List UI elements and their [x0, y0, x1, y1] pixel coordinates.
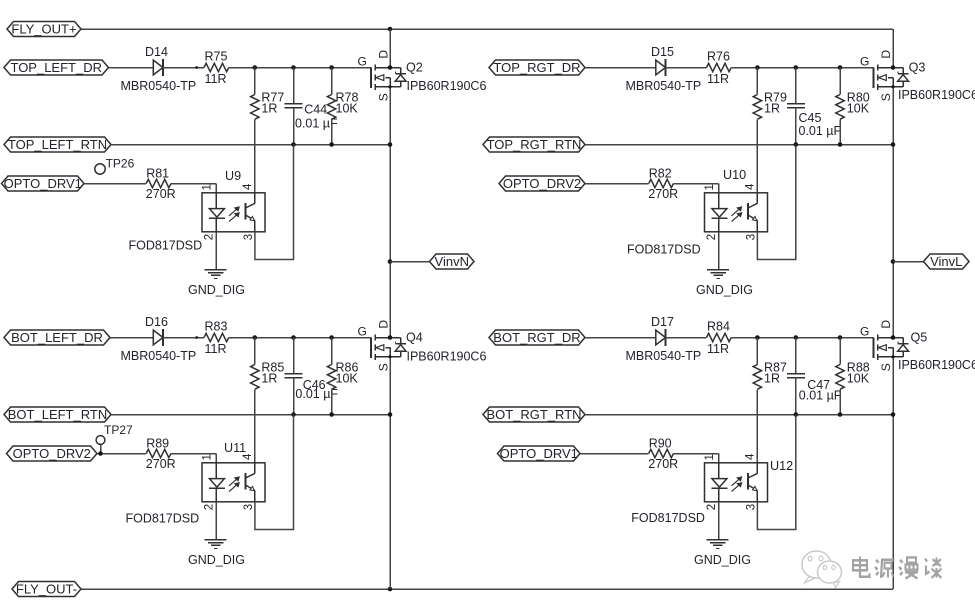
junction gate node / R77 [253, 65, 258, 70]
svg-text:3: 3 [243, 234, 255, 240]
svg-text:D: D [377, 320, 391, 329]
svg-text:S: S [879, 363, 893, 371]
svg-text:U9: U9 [225, 169, 241, 183]
node TOP_LEFT_RTN flag [4, 137, 111, 152]
svg-text:S: S [377, 363, 391, 371]
svg-text:IPB60R190C6: IPB60R190C6 [407, 350, 487, 364]
resistor R90 270R [649, 449, 674, 457]
wire opto U12 pin 2 to ground [718, 502, 720, 540]
capacitor C46 0.01uF [293, 338, 295, 374]
svg-text:GND_DIG: GND_DIG [694, 553, 751, 567]
svg-text:OPTO_DRV2: OPTO_DRV2 [503, 176, 581, 191]
junction node VinvL [891, 259, 896, 264]
diode D15 MBR0540-TP [656, 60, 666, 75]
svg-text:G: G [358, 55, 367, 69]
junction gate node / C45 [794, 65, 799, 70]
wire left mid rail upper [389, 29, 391, 68]
test point TP26 [95, 164, 105, 174]
junction gate node / C46 [291, 335, 296, 340]
svg-text:OPTO_DRV2: OPTO_DRV2 [13, 446, 91, 461]
transistor Q5 IPB60R190C6 [873, 338, 875, 359]
node FLY_OUT+ flag [7, 22, 81, 37]
svg-text:BOT_RGT_DR: BOT_RGT_DR [493, 330, 580, 345]
diode D16 MBR0540-TP [153, 330, 163, 345]
svg-text:BOT_RGT_RTN: BOT_RGT_RTN [486, 407, 581, 422]
svg-text:2: 2 [204, 234, 216, 240]
wire BOT_LEFT_RTN net [111, 414, 390, 416]
resistor R82 270R [649, 179, 674, 187]
svg-text:U12: U12 [770, 459, 793, 473]
svg-text:TP26: TP26 [106, 157, 135, 171]
svg-text:IPB60R190C6: IPB60R190C6 [898, 358, 975, 372]
node OPTO_DRV1 flag [2, 176, 85, 191]
svg-text:IPB60R190C6: IPB60R190C6 [898, 88, 975, 102]
transistor Q2 IPB60R190C6 [370, 68, 372, 89]
svg-text:U10: U10 [723, 168, 746, 182]
wire D14 to R75 [163, 67, 204, 69]
svg-text:3: 3 [746, 504, 758, 510]
capacitor C47 0.01uF [795, 338, 797, 374]
svg-text:11R: 11R [205, 342, 227, 356]
ground GND_DIG (U9) [205, 269, 227, 271]
resistor R88 10K [839, 338, 841, 365]
svg-text:270R: 270R [648, 457, 678, 471]
wire R90 to opto pin 1 [674, 453, 719, 455]
svg-text:BOT_LEFT_RTN: BOT_LEFT_RTN [8, 407, 107, 422]
resistor R85 1R [254, 338, 256, 365]
junction BOT_RGT_RTN / source rail [891, 412, 896, 417]
opto-coupler U12 FOD817DSD [705, 463, 768, 502]
svg-text:2: 2 [706, 234, 718, 240]
svg-text:1R: 1R [261, 102, 277, 116]
svg-text:R89: R89 [146, 437, 169, 451]
resistor R79 1R [756, 68, 758, 95]
transistor Q4 IPB60R190C6 [370, 338, 372, 359]
svg-text:11R: 11R [205, 72, 227, 86]
svg-text:U11: U11 [224, 441, 246, 455]
node VinvL flag [924, 254, 970, 269]
junction top rail / Q2 drain column [388, 27, 393, 32]
svg-text:FOD817DSD: FOD817DSD [129, 239, 203, 253]
svg-text:C45: C45 [799, 111, 822, 125]
resistor R81 270R [146, 179, 171, 187]
wire right rail middle [892, 87, 894, 338]
svg-text:D: D [879, 50, 893, 59]
svg-text:TOP_RGT_DR: TOP_RGT_DR [493, 60, 580, 75]
wire opto U11 pin 2 to ground [215, 502, 217, 540]
wire TOP_LEFT_RTN net [111, 144, 390, 146]
diode D17 MBR0540-TP [656, 330, 666, 345]
svg-text:2: 2 [204, 504, 216, 510]
node TOP_RGT_RTN flag [483, 137, 585, 152]
wire opto U9 pin 3 to TOP_LEFT_RTN [255, 145, 294, 260]
svg-text:270R: 270R [146, 187, 176, 201]
test point TP27 [96, 436, 105, 445]
svg-text:S: S [879, 93, 893, 101]
svg-text:1R: 1R [764, 372, 780, 386]
svg-text:1: 1 [704, 454, 716, 460]
svg-text:10K: 10K [847, 372, 870, 386]
resistor R84 11R [707, 333, 732, 341]
svg-text:1: 1 [202, 454, 214, 460]
junction TOP_LEFT_RTN / R78 [329, 142, 334, 147]
node BOT_LEFT_DR flag [4, 330, 110, 345]
wire FLY_OUT- bottom rail [81, 588, 893, 590]
svg-text:R81: R81 [146, 167, 169, 181]
svg-text:FLY_OUT+: FLY_OUT+ [11, 22, 76, 37]
wire OPTO_DRV2 to R82 [585, 183, 649, 185]
svg-text:R82: R82 [649, 167, 672, 181]
wire opto U12 pin 3 to BOT_RGT_RTN [757, 415, 795, 530]
svg-text:R90: R90 [649, 437, 672, 451]
node VinvN flag [430, 254, 475, 269]
junction bottom rail / Q4 source column [388, 587, 393, 592]
svg-text:270R: 270R [146, 457, 176, 471]
wire right rail upper [892, 29, 894, 68]
ground GND_DIG (U11) [205, 539, 227, 541]
svg-text:R75: R75 [205, 50, 228, 64]
svg-text:Q4: Q4 [406, 331, 423, 345]
ground GND_DIG (U10) [707, 269, 729, 271]
svg-text:MBR0540-TP: MBR0540-TP [626, 349, 702, 363]
svg-text:TOP_RGT_RTN: TOP_RGT_RTN [487, 137, 582, 152]
junction TOP_LEFT_RTN / source rail [388, 142, 393, 147]
watermark logo (chat bubbles) [802, 551, 842, 588]
wire BOT_LEFT_DR to D16 [110, 337, 153, 339]
svg-text:GND_DIG: GND_DIG [188, 283, 245, 297]
svg-text:R84: R84 [707, 320, 730, 334]
svg-text:VinvN: VinvN [435, 254, 469, 269]
junction gate node / R87 [755, 335, 760, 340]
junction gate node / R78 [329, 65, 334, 70]
svg-text:FLY_OUT-: FLY_OUT- [16, 582, 77, 597]
svg-text:11R: 11R [707, 72, 729, 86]
junction BOT_RGT_RTN / C47 [794, 412, 799, 417]
svg-text:MBR0540-TP: MBR0540-TP [121, 349, 197, 363]
wire OPTO_DRV1 to R90 [580, 453, 649, 455]
wire TOP_LEFT_DR to D14 [109, 67, 154, 69]
wire opto U9 pin 2 to ground [215, 232, 217, 270]
junction BOT_RGT_RTN / R88 [838, 412, 843, 417]
svg-text:D: D [377, 50, 391, 59]
wire D16 to R83 [163, 337, 204, 339]
resistor R80 10K [839, 68, 841, 95]
wire BOT_RGT_RTN net [585, 414, 893, 416]
svg-text:D14: D14 [145, 45, 168, 59]
wire D17 to R84 [666, 337, 707, 339]
svg-text:1: 1 [202, 184, 214, 190]
opto-coupler U11 FOD817DSD [202, 463, 265, 502]
svg-text:BOT_LEFT_DR: BOT_LEFT_DR [11, 330, 103, 345]
svg-text:270R: 270R [648, 187, 678, 201]
capacitor C44 0.01uF [293, 68, 295, 104]
svg-text:GND_DIG: GND_DIG [188, 553, 245, 567]
svg-text:0.01 µF: 0.01 µF [799, 124, 842, 138]
wire opto U10 pin 3 to TOP_RGT_RTN [757, 145, 795, 260]
junction gate node / R86 [329, 335, 334, 340]
node OPTO_DRV2 flag [499, 176, 585, 191]
wire left mid rail lower [389, 357, 391, 589]
svg-text:4: 4 [745, 183, 757, 190]
svg-text:11R: 11R [707, 342, 729, 356]
resistor R76 11R [707, 63, 732, 71]
junction node VinvN [388, 259, 393, 264]
wire opto U11 pin 3 to BOT_LEFT_RTN [255, 415, 294, 530]
svg-text:D17: D17 [651, 315, 674, 329]
resistor R78 10K [331, 68, 333, 95]
svg-text:FOD817DSD: FOD817DSD [627, 243, 701, 257]
wire BOT_RGT_DR to D17 [585, 337, 656, 339]
node OPTO_DRV1 flag [498, 446, 581, 461]
ground GND_DIG (U12) [707, 539, 729, 541]
svg-text:Q5: Q5 [911, 331, 928, 345]
resistor R75 11R [204, 63, 229, 71]
svg-text:1R: 1R [764, 102, 780, 116]
junction gate node / R88 [838, 335, 843, 340]
svg-text:G: G [358, 325, 367, 339]
svg-text:R76: R76 [707, 50, 730, 64]
resistor R83 11R [204, 333, 229, 341]
resistor R87 1R [756, 338, 758, 365]
wire D15 to R76 [666, 67, 707, 69]
node TOP_RGT_DR flag [489, 60, 585, 75]
wire R83 to gate of Q4 [229, 337, 371, 339]
svg-text:G: G [860, 325, 869, 339]
wire to VinvN flag [390, 261, 430, 263]
diode D14 MBR0540-TP [153, 60, 163, 75]
junction gate node / R79 [755, 65, 760, 70]
wire right rail lower [892, 357, 894, 589]
node BOT_RGT_RTN flag [483, 407, 585, 422]
svg-text:D16: D16 [145, 315, 168, 329]
wire R75 to gate of Q2 [229, 67, 371, 69]
junction TOP_LEFT_RTN / C44 [291, 142, 296, 147]
svg-text:G: G [860, 55, 869, 69]
wire R76 to gate of Q3 [731, 67, 873, 69]
svg-text:1R: 1R [261, 372, 277, 386]
wire FLY_OUT+ top rail [81, 28, 893, 30]
svg-text:OPTO_DRV1: OPTO_DRV1 [4, 176, 82, 191]
junction TOP_RGT_RTN / R80 [838, 142, 843, 147]
resistor R89 270R [146, 449, 171, 457]
junction gate node / C47 [794, 335, 799, 340]
svg-text:10K: 10K [336, 102, 359, 116]
svg-text:10K: 10K [336, 372, 359, 386]
resistor R86 10K [331, 338, 333, 365]
wire OPTO_DRV1 to R81 [84, 183, 146, 185]
svg-text:R83: R83 [205, 320, 228, 334]
svg-text:MBR0540-TP: MBR0540-TP [626, 79, 702, 93]
wire left mid rail middle [389, 87, 391, 338]
opto-coupler U9 FOD817DSD [202, 193, 265, 232]
opto-coupler U10 FOD817DSD [705, 193, 768, 232]
svg-text:4: 4 [242, 183, 254, 190]
junction gate node / C44 [291, 65, 296, 70]
svg-text:GND_DIG: GND_DIG [696, 283, 753, 297]
wire OPTO_DRV2 to R89 [97, 453, 146, 455]
svg-text:TOP_LEFT_DR: TOP_LEFT_DR [10, 60, 102, 75]
svg-text:IPB60R190C6: IPB60R190C6 [407, 79, 487, 93]
svg-text:VinvL: VinvL [930, 254, 962, 269]
junction BOT_LEFT_RTN / C46 [291, 412, 296, 417]
svg-text:4: 4 [745, 453, 757, 460]
svg-text:FOD817DSD: FOD817DSD [631, 511, 705, 525]
junction BOT_LEFT_RTN / R86 [329, 412, 334, 417]
capacitor C45 0.01uF [795, 68, 797, 104]
node OPTO_DRV2 flag [7, 446, 98, 461]
wire R81 to opto pin 1 [171, 183, 216, 185]
svg-text:TOP_LEFT_RTN: TOP_LEFT_RTN [8, 137, 107, 152]
node BOT_LEFT_RTN flag [4, 407, 111, 422]
node BOT_RGT_DR flag [489, 330, 585, 345]
node TOP_LEFT_DR flag [4, 60, 109, 75]
svg-text:S: S [377, 93, 391, 101]
svg-text:TP27: TP27 [104, 423, 133, 437]
svg-text:FOD817DSD: FOD817DSD [126, 512, 200, 526]
svg-text:3: 3 [746, 234, 758, 240]
resistor R77 1R [254, 68, 256, 95]
wire TOP_RGT_RTN net [585, 144, 893, 146]
watermark text 电源漫谈 [853, 556, 942, 578]
svg-text:D: D [879, 320, 893, 329]
svg-text:Q2: Q2 [406, 61, 423, 75]
junction gate node / R85 [253, 335, 258, 340]
svg-text:2: 2 [706, 504, 718, 510]
wire to VinvL flag [893, 261, 924, 263]
svg-text:Q3: Q3 [909, 61, 926, 75]
wire R82 to opto pin 1 [674, 183, 719, 185]
wire opto U10 pin 2 to ground [718, 232, 720, 270]
wire R84 to gate of Q5 [731, 337, 873, 339]
wire TOP_RGT_DR to D15 [585, 67, 656, 69]
svg-text:0.01 µF: 0.01 µF [799, 389, 842, 403]
transistor Q3 IPB60R190C6 [873, 68, 875, 89]
svg-text:3: 3 [243, 504, 255, 510]
svg-text:C44: C44 [304, 103, 327, 117]
svg-text:1: 1 [704, 184, 716, 190]
node FLY_OUT- flag [12, 582, 81, 597]
wire R89 to opto pin 1 [171, 453, 216, 455]
junction TOP_RGT_RTN / source rail [891, 142, 896, 147]
svg-text:D15: D15 [651, 45, 674, 59]
junction TOP_RGT_RTN / C45 [794, 142, 799, 147]
svg-text:10K: 10K [847, 102, 870, 116]
svg-text:MBR0540-TP: MBR0540-TP [121, 79, 197, 93]
svg-text:OPTO_DRV1: OPTO_DRV1 [500, 446, 578, 461]
junction gate node / R80 [838, 65, 843, 70]
junction BOT_LEFT_RTN / source rail [388, 412, 393, 417]
